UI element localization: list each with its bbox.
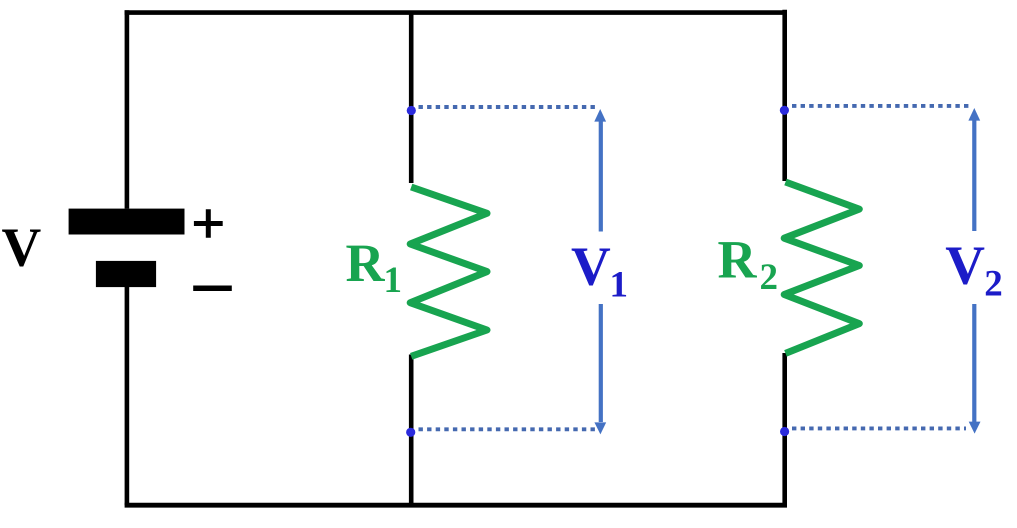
- wire: R2 branch lower: [782, 353, 787, 505]
- svg-text:V: V: [2, 216, 42, 277]
- arrow V1 shaft upper: [599, 120, 603, 232]
- resistor R2 zigzag: [784, 182, 859, 353]
- arrowhead V2 down: [969, 422, 981, 434]
- wire: bottom rail: [125, 503, 787, 508]
- dotted lead V1 bottom: [419, 427, 597, 431]
- wire: top rail: [125, 10, 787, 15]
- svg-text:2: 2: [760, 257, 779, 298]
- dotted lead V1 top: [419, 105, 598, 109]
- arrow V2 shaft upper: [972, 119, 976, 232]
- battery V plate short (-): [96, 261, 156, 287]
- svg-text:R: R: [346, 233, 386, 293]
- dotted lead V2 bottom: [792, 426, 966, 430]
- svg-text:V: V: [571, 236, 611, 297]
- svg-text:V: V: [945, 235, 985, 296]
- arrow V1 shaft lower: [599, 304, 603, 422]
- wire: left rail lower (from battery -): [125, 287, 130, 505]
- battery V plate long (+): [69, 209, 185, 235]
- svg-text:1: 1: [384, 260, 403, 301]
- node dot R1 bottom: [406, 428, 415, 437]
- arrowhead V1 up: [594, 109, 606, 122]
- minus sign: [193, 286, 232, 292]
- node dot R2 top: [780, 106, 789, 115]
- wire: R1 branch lower: [409, 355, 414, 506]
- wire: R1 branch upper: [409, 13, 414, 183]
- svg-text:1: 1: [610, 264, 629, 305]
- dotted lead V2 top: [792, 104, 970, 108]
- svg-text:R: R: [718, 229, 758, 289]
- arrowhead V1 down: [594, 422, 606, 434]
- svg-text:2: 2: [984, 263, 1003, 304]
- plus sign: [194, 209, 223, 237]
- resistor R1 zigzag: [410, 187, 487, 356]
- wire: R2 branch upper: [782, 10, 787, 181]
- node dot R1 top: [407, 106, 416, 115]
- arrow V2 shaft lower: [972, 304, 976, 423]
- node dot R2 bottom: [780, 427, 789, 436]
- arrowhead V2 up: [968, 108, 980, 121]
- wire: left rail upper (to battery +): [125, 10, 130, 208]
